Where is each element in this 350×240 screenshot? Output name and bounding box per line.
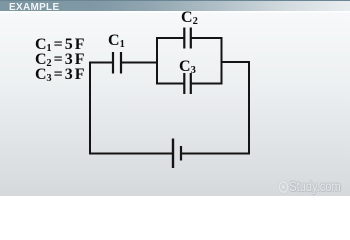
watermark Study.com xyxy=(279,179,341,194)
capacitor C3 xyxy=(184,73,191,94)
wire: top branch left segment xyxy=(156,37,184,39)
capacitor C1 xyxy=(113,52,121,74)
capacitor C2 xyxy=(184,28,191,49)
wire: bottom branch left segment xyxy=(156,83,184,85)
wire: right vertical xyxy=(248,61,250,154)
wire: C1 left lead xyxy=(90,62,113,64)
svg-text:C1: C1 xyxy=(108,32,125,50)
wire: bottom left segment xyxy=(89,153,172,155)
wire: box output to right vertical xyxy=(222,61,250,63)
svg-text:C2: C2 xyxy=(181,9,198,27)
wire: bottom branch right segment xyxy=(191,83,223,85)
label C2 xyxy=(181,9,198,27)
svg-text:C3: C3 xyxy=(179,58,196,76)
label C1 xyxy=(108,32,125,50)
wire: parallel box right vertical xyxy=(221,37,223,85)
wire: left vertical xyxy=(89,62,91,155)
header bar EXAMPLE xyxy=(0,0,350,11)
value label C1 = 5 F xyxy=(35,36,85,54)
svg-text:C3 = 3 F: C3 = 3 F xyxy=(35,66,85,84)
wire: C1 right lead to parallel box xyxy=(121,62,158,64)
wire: parallel box left vertical xyxy=(156,37,158,85)
value label C2 = 3 F xyxy=(35,51,85,69)
wire: bottom right segment xyxy=(181,153,250,155)
wire: top branch right segment xyxy=(191,37,223,39)
value label C3 = 3 F xyxy=(35,66,85,84)
battery V1 xyxy=(173,139,181,169)
label C3 xyxy=(179,58,196,76)
